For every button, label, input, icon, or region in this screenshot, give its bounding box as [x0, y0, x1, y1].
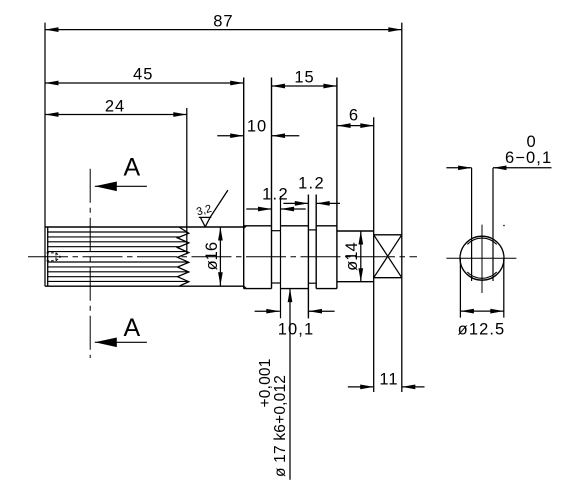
dimension 1.2 groove2 right tail — [316, 202, 340, 204]
spline tooth line 3 — [48, 241, 187, 243]
spline top edge y=227 — [45, 226, 244, 228]
hidden center hole top line — [47, 252, 57, 254]
dimension 11 left tail — [348, 386, 374, 388]
flat side right line — [492, 168, 494, 281]
svg-text:ø12.5: ø12.5 — [458, 321, 506, 339]
dimension 10,1 left tail — [255, 310, 280, 312]
block1 top-left chamfer — [244, 226, 247, 229]
dimension 1.2 groove1 right arrow — [281, 207, 295, 212]
dimension 87 right arrow — [388, 27, 402, 32]
dimension 11 right tail — [402, 386, 425, 388]
groove2 bottom edge — [308, 282, 316, 284]
dimension 10,1 right tail — [309, 310, 335, 312]
hidden center hole cone lower — [56, 257, 61, 261]
hidden center hole cone upper — [56, 253, 61, 257]
diameter 12.5 dimension line — [460, 310, 503, 312]
block2 right edge / extension x=308.4 — [307, 195, 309, 319]
spline tooth line 6 — [48, 261, 188, 263]
dimension 45 left arrow — [45, 81, 59, 86]
block1 bottom-left chamfer — [244, 286, 247, 289]
shaft left face chamfer line — [47, 227, 49, 286]
dimension 45 right arrow — [230, 81, 244, 86]
shaft end face / extension x=401.8 — [401, 23, 403, 392]
flatted-end cross diagonal 2 — [374, 235, 402, 278]
surface roughness slant leg — [210, 190, 228, 217]
o17 block1 bottom edge — [244, 288, 272, 290]
end view outer circle o12.5 — [460, 236, 504, 280]
groove1 bottom edge — [272, 282, 281, 284]
dimension 45 line — [45, 82, 244, 84]
svg-text:45: 45 — [133, 66, 153, 84]
spline tooth line 8 — [48, 271, 189, 273]
section arrow top head — [95, 182, 117, 192]
diameter 16 dimension line — [219, 227, 221, 286]
end view horizontal centerline — [446, 257, 516, 259]
dimension 6 left arrow — [337, 123, 351, 128]
end view chamfer arc bottom — [467, 272, 496, 278]
dimension 15 line — [272, 85, 337, 87]
diameter 14 down arrow — [358, 268, 363, 282]
dimension 10 left arrow — [230, 133, 244, 138]
leader arrow pointing up — [288, 289, 293, 303]
svg-text:6: 6 — [349, 107, 358, 125]
section arrow top tail — [95, 185, 147, 187]
o14 section top edge — [337, 230, 374, 232]
dimension 87 left arrow — [45, 27, 59, 32]
svg-text:A: A — [123, 154, 140, 182]
section arrow bottom tail — [95, 341, 147, 343]
o17 block2 bottom edge — [281, 288, 309, 290]
groove1 top edge — [272, 230, 281, 232]
dimension 1.2 groove2 right arrow — [316, 201, 330, 206]
dimension 6-0,1 left arrow — [458, 165, 472, 170]
diameter 12.5 left extension — [459, 258, 461, 317]
dimension 10 right tail — [272, 135, 300, 137]
dimension 1.2 groove2 left arrow — [295, 201, 309, 206]
svg-text:1.2: 1.2 — [262, 185, 289, 203]
dimension 10,1 left arrow — [266, 309, 280, 314]
svg-text:+0,001: +0,001 — [257, 358, 274, 407]
dimension 10,1 right arrow — [309, 309, 323, 314]
end view chamfer arc top — [467, 238, 496, 244]
dimension 6 right arrow — [360, 123, 374, 128]
dimension 1.2 groove1 left tail — [246, 208, 271, 210]
diameter 16 up arrow — [218, 227, 223, 241]
o17 block3 top edge — [316, 225, 337, 227]
surface roughness triangle right stroke — [205, 217, 210, 226]
dimension 24 left arrow — [45, 112, 59, 117]
surface roughness symbol bar — [199, 216, 211, 218]
dimension 10 right arrow — [272, 133, 286, 138]
diameter 12.5 left arrow — [460, 309, 474, 314]
flatted-end cross diagonal 1 — [374, 235, 402, 278]
dimension 6-0,1 right arrow — [493, 165, 507, 170]
spline tooth line 10 — [48, 280, 188, 282]
o14 section bottom edge — [337, 281, 374, 283]
leader line for diameter 17 — [289, 289, 291, 480]
shaft end bottom edge — [374, 277, 402, 279]
dimension 10 left tail — [217, 135, 243, 137]
dimension 6 (o14 length) line — [337, 125, 374, 127]
svg-text:10: 10 — [247, 118, 267, 136]
diameter 16 down arrow — [218, 272, 223, 286]
step edge / extension line x=243.7 — [243, 78, 245, 289]
diameter 14 dimension line — [360, 231, 362, 282]
svg-text:A: A — [123, 314, 140, 342]
svg-text:11: 11 — [379, 371, 398, 389]
dimension 1.2 groove2 left tail — [283, 202, 308, 204]
spline tooth line 9 — [48, 276, 178, 278]
svg-text:ø16: ø16 — [203, 242, 221, 270]
flat side left line — [471, 168, 473, 281]
dimension 24 right extension line — [186, 108, 188, 254]
diameter 12.5 right arrow — [490, 309, 504, 314]
dimension 1.2 groove1 right tail — [281, 208, 306, 210]
groove1 right wall / extension x=280.5 — [280, 196, 282, 318]
svg-text:ø14: ø14 — [343, 242, 361, 270]
o17 block2 top edge — [281, 225, 309, 227]
dimension 15 left arrow — [272, 84, 286, 89]
groove2 right wall / extension x=316.2 — [315, 195, 317, 289]
diameter 14 up arrow — [358, 231, 363, 245]
spline tooth line 7 — [48, 266, 178, 268]
dimension 24 right arrow — [173, 112, 187, 117]
groove2 top edge — [308, 229, 316, 231]
svg-text:87: 87 — [213, 13, 233, 31]
section arrow bottom head — [95, 338, 117, 348]
svg-text:ø 17 k6+0,012: ø 17 k6+0,012 — [272, 375, 289, 477]
dimension 15 right arrow — [323, 84, 337, 89]
svg-text:24: 24 — [105, 98, 125, 116]
o17 block1 top edge — [244, 225, 272, 227]
surface roughness triangle left stroke — [200, 217, 205, 226]
dimension 11 left arrow — [360, 385, 374, 390]
hidden center hole vertical dash — [55, 253, 57, 261]
stray centerline dot — [503, 225, 505, 227]
spline teeth zigzag ends — [178, 227, 189, 286]
diameter 12.5 right extension — [503, 258, 505, 317]
centerline of shaft (front view) — [28, 256, 417, 258]
dimension 87 line — [45, 29, 402, 31]
svg-text:0: 0 — [527, 133, 536, 151]
end view vertical centerline — [481, 225, 483, 293]
hidden center hole bottom line — [47, 260, 57, 262]
svg-text:1.2: 1.2 — [298, 174, 325, 192]
svg-text:6−0,1: 6−0,1 — [505, 149, 552, 167]
o17 block3 bottom edge — [316, 288, 337, 290]
spline tooth line 4 — [48, 246, 180, 248]
spline tooth line 1 — [48, 231, 187, 233]
block1 right edge / extension x=271.5 — [271, 78, 273, 289]
svg-text:15: 15 — [294, 69, 314, 87]
block3 right edge / extension x=336.9 — [336, 78, 338, 289]
shaft left face / extension line x=45 — [44, 23, 46, 287]
dimension 6-0,1 right tail — [493, 167, 552, 169]
spline tooth line 5 — [48, 251, 187, 253]
shaft end left edge / extension x=373.7 — [373, 117, 375, 392]
dimension 1.2 groove1 left arrow — [258, 207, 272, 212]
dimension 11 right arrow — [402, 385, 416, 390]
section line A-A (dash-dot) — [89, 169, 91, 358]
shaft end top edge — [374, 234, 402, 236]
dimension 6-0,1 left tail — [446, 167, 471, 169]
spline tooth line 2 — [48, 236, 180, 238]
dimension 24 line — [45, 114, 187, 116]
spline bottom edge y=286 — [45, 285, 244, 287]
svg-text:10,1: 10,1 — [278, 321, 315, 339]
